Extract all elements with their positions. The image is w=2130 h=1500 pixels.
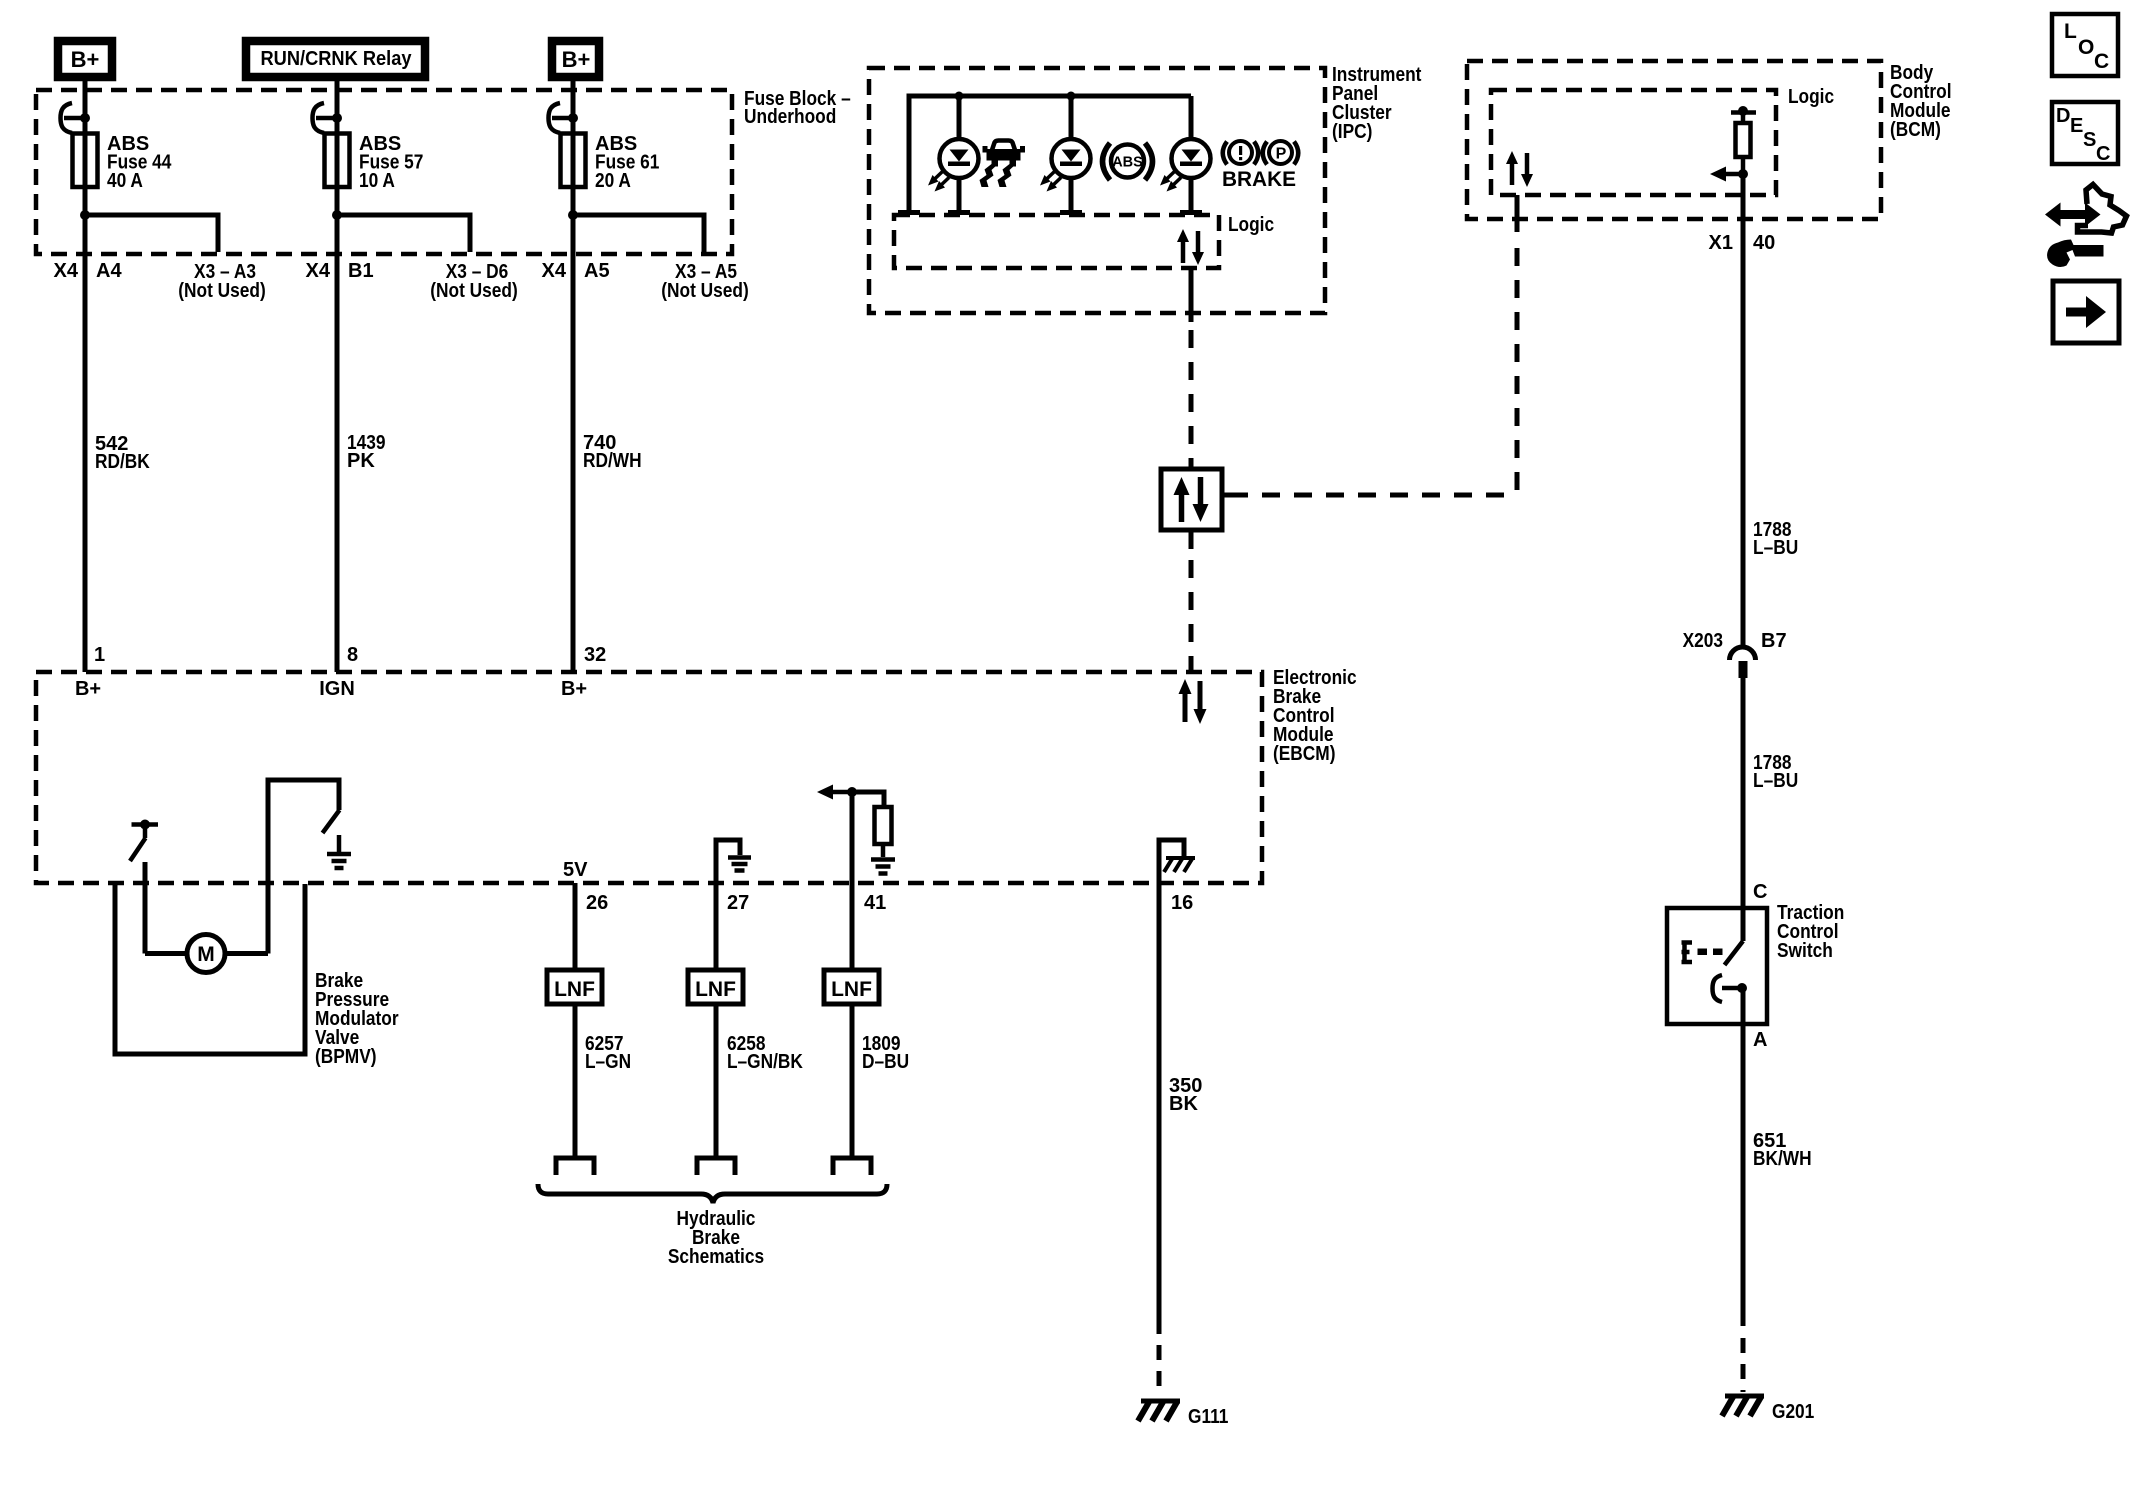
svg-text:LNF: LNF xyxy=(554,978,595,1001)
BCM dashed box xyxy=(1467,61,1881,219)
nav icon DESC box xyxy=(2052,102,2118,165)
svg-text:IGN: IGN xyxy=(319,678,355,700)
LED indicator lamp 2 (ABS) xyxy=(1040,139,1091,192)
label Fuse Block - Underhood xyxy=(744,88,851,128)
wire motor left lead xyxy=(145,951,188,956)
switch traction momentary contact xyxy=(1682,908,1748,1002)
serial data class 2 box xyxy=(1161,463,1230,530)
SECTION: ipc xyxy=(869,64,1517,670)
node junction below fuse 44 xyxy=(80,210,90,220)
motor M pump xyxy=(187,935,225,973)
svg-text:L: L xyxy=(2064,20,2077,43)
svg-text:X4: X4 xyxy=(542,260,567,282)
svg-text:G111: G111 xyxy=(1188,1406,1228,1428)
nav icon wrench with arrows xyxy=(2045,185,2127,268)
wire LED2 xyxy=(1069,96,1074,212)
pin t-bar left bus end xyxy=(898,210,920,215)
svg-text:B1: B1 xyxy=(348,260,374,282)
wire BCM pin X1-40 down to X203 xyxy=(1741,174,1746,648)
pull-up resistor inside BCM xyxy=(1731,106,1756,174)
svg-text:A5: A5 xyxy=(584,260,610,282)
label Instrument Panel Cluster (IPC) xyxy=(1332,64,1422,143)
wire pin 27 to LNF2 xyxy=(714,883,719,971)
svg-text:L–GN: L–GN xyxy=(585,1051,631,1073)
serial data arrows inside IPC logic xyxy=(1177,229,1204,265)
BCM logic dashed box xyxy=(1491,90,1776,195)
svg-text:C: C xyxy=(2096,143,2110,165)
svg-text:BK/WH: BK/WH xyxy=(1753,1148,1812,1170)
svg-text:B7: B7 xyxy=(1761,630,1787,652)
label 1809 D-BU xyxy=(862,1033,909,1073)
svg-text:G201: G201 xyxy=(1772,1401,1814,1423)
serial data arrows inside EBCM xyxy=(1179,679,1207,724)
nav icon LOC box xyxy=(2052,14,2118,76)
EBCM bottom pin labels xyxy=(563,859,1193,914)
fuse F44 holder clip xyxy=(61,103,91,133)
wire branch to X3-D6 xyxy=(337,215,470,252)
icon ABS in circle xyxy=(1103,143,1153,180)
wire pin 41 xyxy=(850,792,855,971)
svg-text:X4: X4 xyxy=(54,260,79,282)
LED indicator lamp 1 (traction) xyxy=(928,139,979,192)
svg-text:Logic: Logic xyxy=(1228,214,1274,236)
svg-text:ABS: ABS xyxy=(1112,155,1143,171)
svg-text:27: 27 xyxy=(727,892,749,914)
svg-text:(BPMV): (BPMV) xyxy=(315,1046,377,1068)
svg-text:D–BU: D–BU xyxy=(862,1051,909,1073)
LED indicator lamp 3 (brake) xyxy=(1160,139,1211,192)
terminator 2 xyxy=(697,1158,735,1175)
fuse F61 holder clip xyxy=(549,103,579,133)
ground (solenoid) xyxy=(327,854,351,868)
icon brake warning (!)(P) BRAKE xyxy=(1222,141,1298,191)
terminator 1 xyxy=(556,1158,594,1175)
label Traction Control Switch xyxy=(1777,902,1844,962)
wire LNF3 to terminator xyxy=(850,1004,855,1156)
node bus junction 1 xyxy=(955,92,964,101)
driver arrow inside BCM xyxy=(1710,167,1748,182)
svg-text:BRAKE: BRAKE xyxy=(1222,168,1296,191)
svg-text:LNF: LNF xyxy=(831,978,872,1001)
power symbol B+ (left) xyxy=(58,41,112,77)
svg-text:Schematics: Schematics xyxy=(668,1246,764,1268)
nav icon next arrow box xyxy=(2053,281,2119,343)
svg-text:40: 40 xyxy=(1753,232,1775,254)
wire BPMV loop xyxy=(115,884,305,1054)
label 6257 L-GN xyxy=(585,1033,631,1073)
wire branch to X3-A5 xyxy=(573,215,704,254)
switch solenoid contact with ground inside EBCM xyxy=(268,780,340,954)
wire B+ left to EBCM pin 1 xyxy=(83,77,88,672)
ground G201 chassis symbol xyxy=(1722,1396,1764,1416)
labels X1 40 xyxy=(1709,232,1776,254)
SECTION: right wire xyxy=(1667,519,1844,1423)
svg-text:(Not Used): (Not Used) xyxy=(430,280,518,302)
icon traction skid car xyxy=(980,141,1026,188)
fuse block underhood dashed box xyxy=(36,90,732,254)
traction control switch box xyxy=(1667,908,1767,1024)
svg-text:P: P xyxy=(1276,146,1287,163)
svg-text:C: C xyxy=(2094,50,2109,73)
svg-text:41: 41 xyxy=(864,892,886,914)
power symbol B+ (right) xyxy=(552,41,599,77)
labels fuse44 pins xyxy=(54,260,266,700)
label 1788 L-BU upper xyxy=(1753,519,1798,559)
brace hydraulic schematics xyxy=(538,1184,887,1203)
svg-text:A4: A4 xyxy=(96,260,122,282)
wire dashed serial box to BCM xyxy=(1230,493,1517,498)
SECTION: margin icons xyxy=(2045,14,2127,343)
svg-text:LNF: LNF xyxy=(695,978,736,1001)
svg-text:L–BU: L–BU xyxy=(1753,537,1798,559)
labels fuse57 pins xyxy=(306,260,518,700)
node junction below fuse 61 xyxy=(568,210,578,220)
wire IPC logic to serial box (solid stub) xyxy=(1189,268,1194,322)
chassis ground hook (pin 16) inside EBCM xyxy=(1159,840,1184,890)
svg-text:RD/WH: RD/WH xyxy=(583,450,642,472)
wire dashed to G201 xyxy=(1741,1338,1746,1392)
pin t-bar LED3 xyxy=(1180,210,1202,215)
serial data arrows inside BCM logic xyxy=(1506,151,1533,187)
SECTION: bpmv xyxy=(115,884,399,1068)
svg-text:B+: B+ xyxy=(561,678,587,700)
ground (pin 27) xyxy=(728,858,751,871)
terminator 3 xyxy=(833,1158,871,1175)
svg-text:O: O xyxy=(2078,36,2094,59)
svg-text:B+: B+ xyxy=(75,678,101,700)
wire pin 41 to LNF3 xyxy=(850,883,855,971)
svg-text:C: C xyxy=(1753,881,1767,903)
connector LNF 2 xyxy=(688,970,743,1004)
node junction below fuse 57 xyxy=(332,210,342,220)
svg-text:B+: B+ xyxy=(71,47,100,72)
label Electronic Brake Control Module (EBCM) xyxy=(1273,667,1357,765)
label 1788 L-BU lower xyxy=(1753,752,1798,792)
svg-text:RUN/CRNK Relay: RUN/CRNK Relay xyxy=(261,48,413,70)
wire RUN/CRNK to EBCM pin 8 xyxy=(335,77,340,672)
ground G111 chassis symbol xyxy=(1138,1401,1180,1421)
connector X203 B7 xyxy=(1730,647,1756,678)
label 651 BK/WH xyxy=(1753,1130,1812,1170)
ground (below resistor) xyxy=(871,860,895,874)
fuse ABS Fuse 44 40A xyxy=(73,134,98,188)
wire lamp supply bus xyxy=(909,96,1191,212)
svg-text:(EBCM): (EBCM) xyxy=(1273,743,1336,765)
svg-text:L–BU: L–BU xyxy=(1753,770,1798,792)
wire motor right lead xyxy=(224,951,268,956)
connector LNF 3 xyxy=(824,970,879,1004)
SECTION: fuse block xyxy=(36,77,851,700)
svg-text:(BCM): (BCM) xyxy=(1890,119,1941,141)
labels X203 B7 xyxy=(1683,630,1787,652)
SECTION: lnf xyxy=(538,883,1228,1428)
svg-text:RD/BK: RD/BK xyxy=(95,451,150,473)
ground hook (pin 27) inside EBCM xyxy=(716,840,740,890)
resistor with driver arrow (pin 41) inside EBCM xyxy=(817,785,892,858)
label Brake Pressure Modulator Valve (BPMV) xyxy=(315,970,399,1068)
wire B+ right to EBCM pin 32 xyxy=(571,77,576,672)
wire LNF2 to terminator xyxy=(714,1004,719,1156)
labels fuse61 pins xyxy=(542,260,749,700)
svg-text:E: E xyxy=(2070,115,2083,137)
wire pin 26 to LNF1 xyxy=(573,883,578,971)
svg-text:X203: X203 xyxy=(1683,630,1723,652)
svg-text:X1: X1 xyxy=(1709,232,1733,254)
svg-text:PK: PK xyxy=(347,450,375,472)
fuse F57 holder clip xyxy=(313,103,343,133)
svg-text:40 A: 40 A xyxy=(107,170,143,192)
svg-text:16: 16 xyxy=(1171,892,1193,914)
wire branch to X3-A3 xyxy=(85,215,218,252)
wire switch to G201 xyxy=(1741,988,1746,1326)
EBCM dashed box xyxy=(36,672,1262,883)
wire X203 to traction switch xyxy=(1741,678,1746,908)
pin t-bar LED1 xyxy=(948,210,970,215)
SECTION: top power feeds xyxy=(58,41,599,77)
svg-text:Logic: Logic xyxy=(1788,86,1834,108)
svg-text:S: S xyxy=(2083,129,2096,151)
wire dashed IPC to serial box xyxy=(1189,330,1194,469)
svg-text:B+: B+ xyxy=(562,47,591,72)
svg-text:X4: X4 xyxy=(306,260,331,282)
node bus junction 2 xyxy=(1067,92,1076,101)
wire serial box to EBCM (solid stub then dashed) xyxy=(1189,530,1194,549)
wire motor feed through case xyxy=(143,862,148,954)
pin t-bar LED2 xyxy=(1060,210,1082,215)
svg-text:10 A: 10 A xyxy=(359,170,395,192)
svg-text:Underhood: Underhood xyxy=(744,106,836,128)
IPC dashed box xyxy=(869,68,1325,313)
SECTION: bcm xyxy=(1467,61,1952,648)
svg-text:8: 8 xyxy=(347,644,358,666)
svg-text:32: 32 xyxy=(584,644,606,666)
svg-text:D: D xyxy=(2056,105,2070,127)
fuse ABS Fuse 61 20A xyxy=(561,134,586,188)
wire LED1 xyxy=(957,96,962,212)
wire pin 16 to G111 xyxy=(1157,883,1162,1334)
svg-text:26: 26 xyxy=(586,892,608,914)
fuse ABS Fuse 57 10A xyxy=(325,134,350,188)
label 6258 L-GN/BK xyxy=(727,1033,803,1073)
svg-text:A: A xyxy=(1753,1029,1767,1051)
wire dashed to G111 xyxy=(1157,1345,1162,1397)
chassis ground symbol (pin 16) xyxy=(1164,858,1195,872)
svg-text:(IPC): (IPC) xyxy=(1332,121,1372,143)
IPC logic dashed box xyxy=(894,215,1219,268)
svg-text:20 A: 20 A xyxy=(595,170,631,192)
svg-text:M: M xyxy=(197,943,215,966)
svg-text:1: 1 xyxy=(94,644,105,666)
connector LNF 1 xyxy=(547,970,602,1004)
wire BCM logic pin (solid stub then dashed) xyxy=(1515,195,1520,232)
svg-text:(Not Used): (Not Used) xyxy=(178,280,266,302)
svg-text:L–GN/BK: L–GN/BK xyxy=(727,1051,803,1073)
label Hydraulic Brake Schematics xyxy=(668,1208,764,1268)
wire LNF1 to terminator xyxy=(573,1004,578,1156)
power symbol RUN/CRNK Relay xyxy=(246,41,425,77)
svg-text:Switch: Switch xyxy=(1777,940,1833,962)
SECTION: ebcm xyxy=(36,667,1357,971)
label 350 BK xyxy=(1169,1075,1202,1115)
svg-text:BK: BK xyxy=(1169,1093,1198,1115)
svg-text:(Not Used): (Not Used) xyxy=(661,280,749,302)
switch relay contact (pump motor) inside EBCM xyxy=(130,820,158,862)
label Body Control Module (BCM) xyxy=(1890,62,1952,141)
wire LED3 xyxy=(1189,96,1194,212)
svg-text:5V: 5V xyxy=(563,859,588,881)
